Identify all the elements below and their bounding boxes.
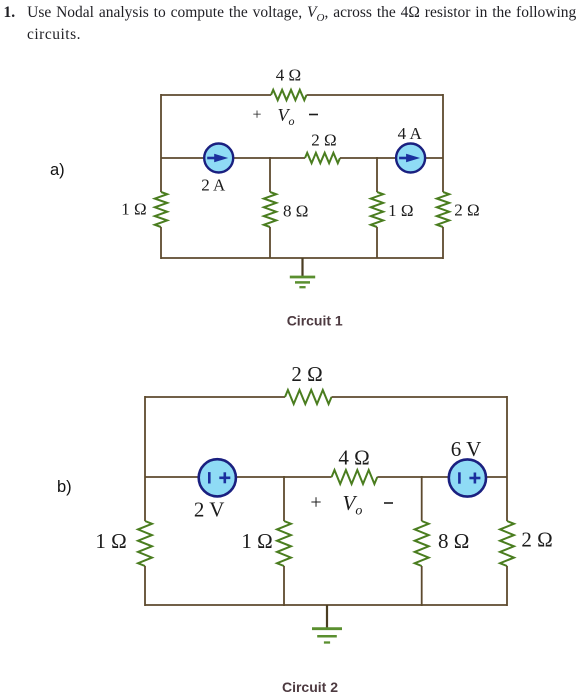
wire C2 top left segment (145, 396, 285, 398)
voltage source V1 2V (199, 459, 236, 496)
svg-text:Vo: Vo (278, 105, 295, 128)
svg-text:2 Ω: 2 Ω (291, 362, 322, 386)
wire C1 top right segment (307, 94, 444, 96)
resistor R 1ohm C2 left (138, 521, 152, 566)
resistor R 2ohm C1 middle (305, 153, 340, 163)
current source I2 4A (396, 144, 425, 173)
svg-text:2 Ω: 2 Ω (521, 528, 552, 552)
svg-text:4 Ω: 4 Ω (338, 446, 369, 470)
wire C2 branch node down 1ohm (283, 476, 285, 521)
wire C1 branch node C down (376, 157, 378, 192)
wire C2 right vertical upper (506, 396, 508, 521)
svg-text:+: + (310, 492, 321, 514)
wire C1 left vertical lower (160, 227, 162, 259)
resistor R 1ohm C1 left (155, 192, 167, 227)
resistor R 2ohm C2 right (500, 521, 514, 566)
wire C2 bottom (145, 604, 507, 606)
problem statement line 1 (4, 4, 583, 24)
resistor R 4ohm C1 top (271, 90, 307, 100)
wire C1 top left segment (161, 94, 271, 96)
label minus C1 (309, 114, 318, 116)
resistor R 8ohm C1 (264, 192, 276, 227)
svg-text:2 A: 2 A (201, 176, 226, 195)
svg-text:Vo: Vo (343, 491, 363, 519)
current source I1 2A (204, 144, 233, 173)
wire C1 branch 1ohm lower (376, 227, 378, 258)
wire C2 left vertical upper (144, 396, 146, 521)
wire C2 top right segment (332, 396, 508, 398)
svg-text:a): a) (50, 161, 65, 179)
wire C1 bottom (161, 257, 443, 259)
resistor R 1ohm C2 middle (277, 521, 291, 566)
svg-text:2 Ω: 2 Ω (454, 201, 479, 220)
svg-text:1 Ω: 1 Ω (95, 529, 126, 553)
wire C1 branch 8ohm lower (269, 227, 271, 258)
svg-text:1 Ω: 1 Ω (388, 201, 413, 220)
wire C1 right vertical lower (442, 227, 444, 259)
wire C1 middle left segment (161, 157, 305, 159)
wire C2 branch 1ohm lower (283, 566, 285, 606)
svg-text:2 V: 2 V (194, 498, 225, 522)
wire C2 left vertical lower (144, 566, 146, 606)
resistor R 2ohm C1 right (437, 192, 449, 227)
resistor R 8ohm C2 (415, 521, 429, 566)
svg-text:Circuit 1: Circuit 1 (287, 312, 343, 328)
wire C1 branch node B down (269, 157, 271, 192)
svg-text:b): b) (57, 478, 72, 496)
wire C2 branch 8ohm lower (421, 566, 423, 606)
resistor R 2ohm C2 top (285, 390, 332, 404)
resistor R 4ohm C2 middle (332, 470, 378, 484)
svg-text:6 V: 6 V (451, 437, 482, 461)
svg-text:1 Ω: 1 Ω (241, 529, 272, 553)
problem statement line 2 (27, 26, 81, 44)
svg-text:+: + (252, 107, 261, 124)
resistor R 1ohm C1 inner right (371, 192, 383, 227)
label minus C2 (384, 502, 393, 504)
wire C1 middle right segment (340, 157, 443, 159)
wire C2 middle left segment (145, 476, 332, 478)
wire C2 middle right segment (377, 476, 507, 478)
voltage source V2 6V (449, 459, 486, 496)
wire C2 branch node down 8ohm (421, 476, 423, 521)
ground C1 (301, 258, 303, 277)
svg-text:8 Ω: 8 Ω (438, 529, 469, 553)
wire C2 right vertical lower (506, 566, 508, 606)
svg-text:8 Ω: 8 Ω (283, 202, 308, 221)
svg-text:4 Ω: 4 Ω (276, 66, 301, 85)
svg-text:2 Ω: 2 Ω (311, 131, 336, 150)
svg-text:Circuit 2: Circuit 2 (282, 679, 338, 695)
svg-text:4 A: 4 A (398, 124, 423, 143)
ground C2 (326, 605, 328, 629)
svg-text:1 Ω: 1 Ω (121, 200, 146, 219)
wire C1 right vertical upper (442, 94, 444, 192)
wire C1 left vertical upper (160, 94, 162, 192)
